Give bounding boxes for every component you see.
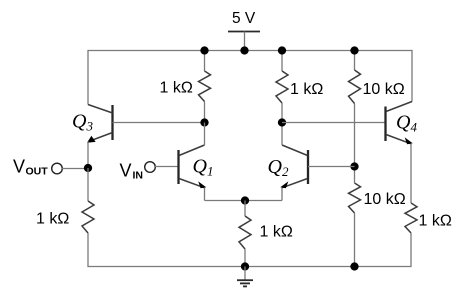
node A: rail junction at R1 top bbox=[200, 46, 208, 54]
svg-text:Q3: Q3 bbox=[72, 111, 93, 134]
svg-text:1 kΩ: 1 kΩ bbox=[419, 213, 452, 230]
svg-text:V: V bbox=[120, 161, 132, 181]
resistor R7 1 kOhm (tail) bbox=[239, 216, 293, 249]
wire: R5 to bottom-right corner bbox=[410, 233, 412, 267]
wire: left branch vertical (top-left corner down to Q3 collector) bbox=[87, 50, 89, 105]
node: 5V junction on rail bbox=[240, 46, 248, 54]
svg-text:IN: IN bbox=[133, 170, 144, 182]
resistor R1 1 kOhm (left load) bbox=[160, 71, 211, 102]
node C: bias divider junction (Q2 base) bbox=[350, 162, 358, 170]
node B: Q2 collector / R2 / Q4 base junction bbox=[278, 118, 286, 126]
svg-text:5 V: 5 V bbox=[232, 10, 256, 27]
wire: tail node down to R7 bbox=[244, 201, 246, 217]
svg-text:1 kΩ: 1 kΩ bbox=[260, 224, 293, 241]
node: rail junction at R2 top bbox=[278, 46, 286, 54]
wire: Q4 collector vertical to top rail (right corner) bbox=[411, 50, 413, 102]
wire: shared emitter line bbox=[205, 200, 283, 202]
svg-text:V: V bbox=[13, 157, 25, 177]
svg-text:10 kΩ: 10 kΩ bbox=[364, 191, 406, 208]
resistor R2 1 kOhm (right load) bbox=[276, 71, 323, 103]
node: R4 bottom at ground rail bbox=[350, 262, 358, 270]
wire: Q2 base to node C bbox=[308, 166, 355, 168]
transistor Q1 (NPN) bbox=[179, 145, 214, 188]
wire: node B to Q4 base bbox=[282, 122, 386, 124]
wire: Vout node down to R6 bbox=[87, 168, 89, 201]
wire: Q1 collector up to node A bbox=[204, 123, 206, 146]
wire: Q4 emitter down to R5 bbox=[410, 144, 412, 203]
ground bbox=[237, 267, 253, 287]
resistor R4 10 kOhm (lower bias) bbox=[349, 183, 406, 213]
terminal VOUT bbox=[13, 157, 62, 178]
wire: Q2 emitter down to shared emitter wire bbox=[281, 188, 283, 201]
svg-text:1 kΩ: 1 kΩ bbox=[36, 211, 69, 228]
transistor Q3 (PNP) bbox=[72, 105, 113, 143]
resistor R3 10 kOhm (upper bias) bbox=[349, 70, 405, 104]
node: ground rail junction bbox=[241, 262, 249, 270]
wire: Q1 emitter down to shared emitter wire bbox=[204, 188, 206, 201]
wire: rail to R2 bbox=[281, 51, 283, 72]
wire: rail to R1 bbox=[204, 51, 206, 72]
node: tail junction bbox=[241, 196, 249, 204]
wire: R7 to ground rail bbox=[244, 249, 246, 267]
wire: R2 to node B bbox=[281, 103, 283, 123]
wire: node C to R4 top bbox=[354, 167, 356, 184]
svg-text:10 kΩ: 10 kΩ bbox=[363, 81, 405, 98]
svg-text:1 kΩ: 1 kΩ bbox=[160, 80, 193, 97]
wire: R4 bottom to ground rail bbox=[354, 213, 356, 267]
wire: rail to R3 bbox=[354, 51, 356, 71]
svg-text:Q2: Q2 bbox=[268, 156, 289, 179]
transistor Q4 (NPN) bbox=[386, 102, 418, 145]
resistor R6 1 kOhm (output load) bbox=[36, 201, 94, 233]
wire: VIN circle to Q1 base bbox=[155, 166, 179, 168]
svg-text:OUT: OUT bbox=[26, 166, 49, 178]
wire: Q3 emitter down to Vout node bbox=[87, 142, 89, 169]
svg-text:Q4: Q4 bbox=[396, 112, 417, 135]
supply +5V terminal bbox=[228, 10, 260, 51]
node A: Q3 base / Q1 collector / R1 junction bbox=[200, 118, 208, 126]
wire: +5V top rail bbox=[88, 50, 412, 52]
wire: R3 bottom to node C (crosses Q4 base line) bbox=[354, 104, 356, 167]
wire: Q2 collector up to node B bbox=[281, 123, 283, 146]
wire: R1 to node A bbox=[204, 102, 206, 123]
resistor R5 1 kOhm (right emitter) bbox=[405, 203, 452, 233]
wire: VOUT circle to node bbox=[62, 168, 88, 170]
svg-text:1 kΩ: 1 kΩ bbox=[290, 81, 323, 98]
transistor Q2 (NPN) bbox=[268, 145, 309, 188]
wire: bottom ground rail bbox=[88, 266, 411, 268]
node: VOUT junction bbox=[84, 164, 92, 172]
terminal VIN bbox=[120, 161, 156, 182]
node: rail junction at R3 top bbox=[350, 46, 358, 54]
wire: R6 to bottom-left corner bbox=[87, 233, 89, 267]
wire: Q3 base to node A bbox=[113, 122, 205, 124]
svg-text:Q1: Q1 bbox=[193, 156, 214, 179]
